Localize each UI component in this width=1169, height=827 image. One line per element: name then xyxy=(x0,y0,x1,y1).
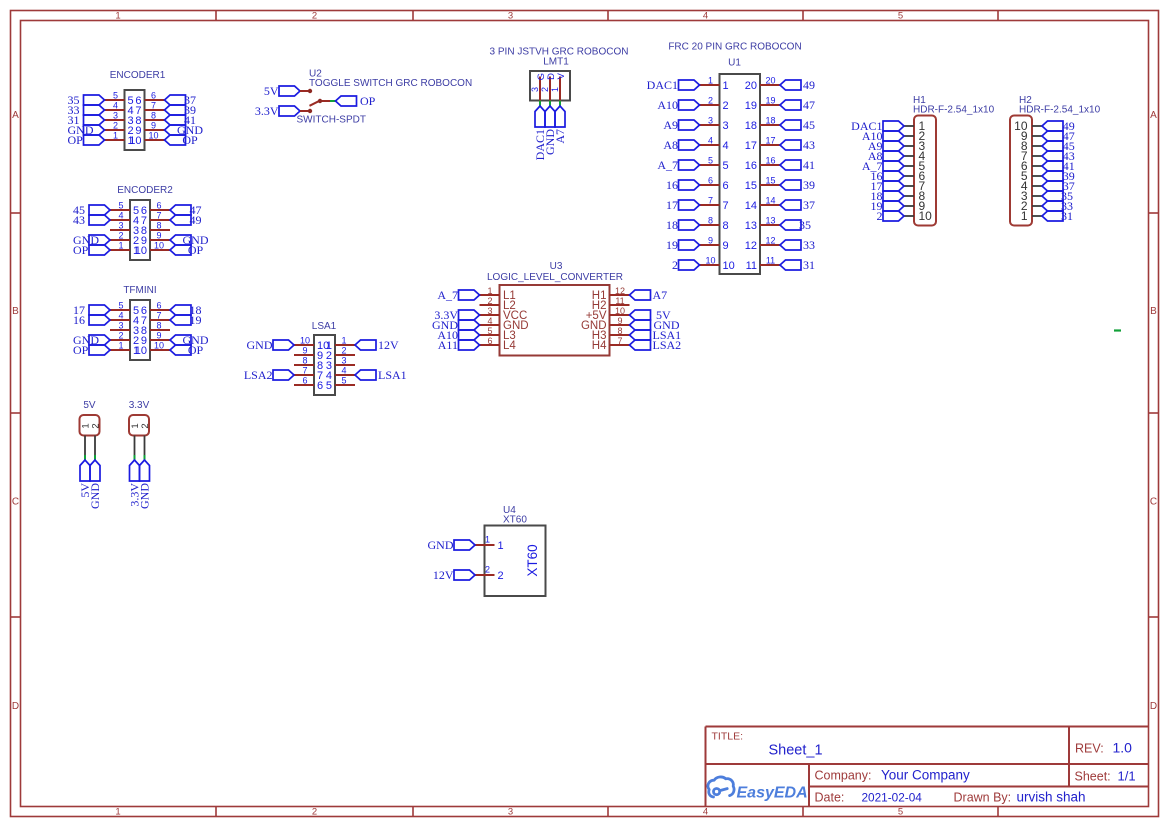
svg-text:LSA1: LSA1 xyxy=(378,368,407,382)
svg-text:10: 10 xyxy=(148,131,158,141)
svg-text:7: 7 xyxy=(723,200,729,212)
svg-text:Drawn By:: Drawn By: xyxy=(954,791,1012,805)
svg-text:U1: U1 xyxy=(728,57,741,68)
svg-text:Date:: Date: xyxy=(815,791,845,805)
svg-text:1: 1 xyxy=(118,241,123,251)
svg-text:11: 11 xyxy=(746,260,757,272)
svg-text:3: 3 xyxy=(530,87,540,92)
svg-text:3: 3 xyxy=(118,321,123,331)
svg-text:B: B xyxy=(12,306,19,317)
svg-text:2: 2 xyxy=(113,121,118,131)
svg-text:14: 14 xyxy=(745,200,757,212)
svg-text:18: 18 xyxy=(745,120,757,132)
svg-text:5: 5 xyxy=(708,156,713,166)
svg-text:LSA2: LSA2 xyxy=(244,368,273,382)
svg-text:3: 3 xyxy=(708,116,713,126)
svg-text:LMT1: LMT1 xyxy=(543,57,569,68)
svg-text:6: 6 xyxy=(487,336,492,346)
svg-text:1.0: 1.0 xyxy=(1113,740,1133,756)
svg-text:2: 2 xyxy=(118,231,123,241)
svg-text:16: 16 xyxy=(745,160,757,172)
svg-text:15: 15 xyxy=(745,180,757,192)
svg-text:OP: OP xyxy=(188,343,204,357)
svg-text:5: 5 xyxy=(487,326,492,336)
svg-text:A: A xyxy=(1150,110,1157,121)
svg-text:8: 8 xyxy=(156,321,161,331)
svg-text:C: C xyxy=(1150,497,1157,508)
svg-text:1: 1 xyxy=(708,76,713,86)
svg-text:GND: GND xyxy=(428,538,454,552)
svg-text:6: 6 xyxy=(708,176,713,186)
svg-text:4: 4 xyxy=(703,807,708,818)
svg-text:2021-02-04: 2021-02-04 xyxy=(862,791,923,805)
svg-text:5V: 5V xyxy=(83,400,96,411)
svg-text:17: 17 xyxy=(765,136,775,146)
svg-text:8: 8 xyxy=(302,356,307,366)
svg-text:10: 10 xyxy=(154,241,164,251)
svg-text:9: 9 xyxy=(156,331,161,341)
svg-text:12: 12 xyxy=(765,236,775,246)
svg-text:1: 1 xyxy=(485,535,490,545)
svg-text:2: 2 xyxy=(708,96,713,106)
svg-text:5: 5 xyxy=(326,380,332,392)
svg-text:37: 37 xyxy=(803,198,815,212)
svg-text:8: 8 xyxy=(151,111,156,121)
svg-text:urvish shah: urvish shah xyxy=(1017,790,1086,805)
svg-text:3: 3 xyxy=(487,306,492,316)
svg-text:3: 3 xyxy=(113,111,118,121)
svg-text:17: 17 xyxy=(745,140,757,152)
svg-text:10: 10 xyxy=(135,245,147,257)
svg-text:31: 31 xyxy=(803,258,815,272)
svg-text:2: 2 xyxy=(877,209,883,223)
svg-text:GND: GND xyxy=(247,338,273,352)
svg-text:6: 6 xyxy=(723,180,729,192)
svg-text:13: 13 xyxy=(765,216,775,226)
svg-text:12V: 12V xyxy=(378,338,399,352)
svg-text:8: 8 xyxy=(617,326,622,336)
svg-text:Sheet_1: Sheet_1 xyxy=(769,743,823,759)
svg-text:4: 4 xyxy=(723,140,729,152)
svg-text:45: 45 xyxy=(803,118,815,132)
svg-text:8: 8 xyxy=(708,216,713,226)
svg-text:7: 7 xyxy=(302,366,307,376)
svg-text:LSA1: LSA1 xyxy=(312,321,337,332)
svg-text:1: 1 xyxy=(550,87,560,92)
svg-text:6: 6 xyxy=(302,376,307,386)
svg-text:2: 2 xyxy=(140,423,151,428)
svg-text:12V: 12V xyxy=(433,568,454,582)
svg-text:7: 7 xyxy=(708,196,713,206)
svg-text:2: 2 xyxy=(312,11,317,22)
svg-text:Company:: Company: xyxy=(815,769,872,783)
svg-text:10: 10 xyxy=(300,336,310,346)
svg-text:10: 10 xyxy=(615,306,625,316)
svg-text:6: 6 xyxy=(151,91,156,101)
svg-text:OP: OP xyxy=(360,94,376,108)
svg-text:TFMINI: TFMINI xyxy=(123,285,156,296)
svg-text:HDR-F-2.54_1x10: HDR-F-2.54_1x10 xyxy=(913,104,995,115)
svg-text:2: 2 xyxy=(723,100,729,112)
svg-text:9: 9 xyxy=(708,236,713,246)
svg-text:3.3V: 3.3V xyxy=(129,400,150,411)
svg-text:5: 5 xyxy=(898,807,903,818)
svg-text:3: 3 xyxy=(341,356,346,366)
svg-text:6: 6 xyxy=(317,380,323,392)
svg-text:13: 13 xyxy=(745,220,757,232)
svg-text:9: 9 xyxy=(302,346,307,356)
svg-text:L4: L4 xyxy=(503,340,516,352)
svg-text:SWITCH-SPDT: SWITCH-SPDT xyxy=(297,115,366,126)
svg-text:B: B xyxy=(1150,306,1157,317)
svg-text:V: V xyxy=(556,72,567,79)
svg-text:1: 1 xyxy=(1021,209,1028,223)
svg-text:1: 1 xyxy=(115,807,120,818)
svg-text:TOGGLE SWITCH GRC ROBOCON: TOGGLE SWITCH GRC ROBOCON xyxy=(309,78,472,89)
svg-text:2: 2 xyxy=(498,570,504,582)
svg-text:2: 2 xyxy=(485,565,490,575)
svg-text:REV:: REV: xyxy=(1075,742,1104,756)
svg-text:OP: OP xyxy=(73,243,89,257)
svg-text:A_7: A_7 xyxy=(657,158,678,172)
svg-text:A7: A7 xyxy=(653,288,668,302)
svg-text:1: 1 xyxy=(118,341,123,351)
svg-text:14: 14 xyxy=(765,196,775,206)
svg-text:ENCODER2: ENCODER2 xyxy=(117,185,173,196)
svg-text:3: 3 xyxy=(118,221,123,231)
svg-text:16: 16 xyxy=(765,156,775,166)
svg-text:18: 18 xyxy=(666,218,678,232)
svg-text:8: 8 xyxy=(723,220,729,232)
svg-text:D: D xyxy=(12,701,19,712)
svg-text:9: 9 xyxy=(617,316,622,326)
svg-text:1: 1 xyxy=(723,80,729,92)
svg-text:3.3V: 3.3V xyxy=(255,104,279,118)
svg-text:3: 3 xyxy=(723,120,729,132)
svg-text:ENCODER1: ENCODER1 xyxy=(110,70,166,81)
svg-text:1: 1 xyxy=(498,540,504,552)
svg-text:2: 2 xyxy=(118,331,123,341)
svg-text:8: 8 xyxy=(156,221,161,231)
svg-text:9: 9 xyxy=(156,231,161,241)
svg-text:7: 7 xyxy=(151,101,156,111)
svg-text:19: 19 xyxy=(745,100,757,112)
svg-text:OP: OP xyxy=(68,133,84,147)
svg-text:16: 16 xyxy=(73,313,85,327)
svg-text:1: 1 xyxy=(341,336,346,346)
svg-text:A8: A8 xyxy=(663,138,678,152)
svg-text:Your Company: Your Company xyxy=(881,768,970,783)
svg-text:A10: A10 xyxy=(657,98,678,112)
svg-text:DAC1: DAC1 xyxy=(647,78,678,92)
svg-text:17: 17 xyxy=(666,198,678,212)
svg-text:15: 15 xyxy=(765,176,775,186)
svg-text:43: 43 xyxy=(73,213,85,227)
svg-text:6: 6 xyxy=(156,201,161,211)
svg-text:EasyEDA: EasyEDA xyxy=(737,785,808,802)
svg-text:OP: OP xyxy=(188,243,204,257)
svg-text:49: 49 xyxy=(803,78,815,92)
svg-text:12: 12 xyxy=(745,240,757,252)
svg-text:Sheet:: Sheet: xyxy=(1075,770,1111,784)
svg-text:16: 16 xyxy=(666,178,678,192)
svg-text:LSA2: LSA2 xyxy=(653,338,682,352)
svg-text:A9: A9 xyxy=(663,118,678,132)
svg-text:20: 20 xyxy=(765,76,775,86)
svg-text:A11: A11 xyxy=(438,338,458,352)
svg-text:FRC 20 PIN GRC ROBOCON: FRC 20 PIN GRC ROBOCON xyxy=(668,42,801,53)
svg-text:9: 9 xyxy=(151,121,156,131)
svg-text:3: 3 xyxy=(508,11,513,22)
svg-text:10: 10 xyxy=(129,135,141,147)
svg-text:5: 5 xyxy=(898,11,903,22)
svg-text:19: 19 xyxy=(190,313,202,327)
svg-text:39: 39 xyxy=(803,178,815,192)
svg-text:1/1: 1/1 xyxy=(1118,769,1136,784)
svg-text:11: 11 xyxy=(615,296,624,306)
svg-text:5: 5 xyxy=(118,301,123,311)
svg-text:12: 12 xyxy=(615,286,625,296)
svg-text:47: 47 xyxy=(803,98,815,112)
svg-text:D: D xyxy=(1150,701,1157,712)
svg-text:HDR-F-2.54_1x10: HDR-F-2.54_1x10 xyxy=(1019,104,1101,115)
svg-text:10: 10 xyxy=(154,341,164,351)
svg-text:19: 19 xyxy=(765,96,775,106)
svg-text:19: 19 xyxy=(666,238,678,252)
svg-text:2: 2 xyxy=(312,807,317,818)
svg-text:10: 10 xyxy=(919,209,933,223)
svg-text:OP: OP xyxy=(182,133,198,147)
svg-text:C: C xyxy=(12,497,19,508)
svg-text:11: 11 xyxy=(766,256,775,266)
svg-text:35: 35 xyxy=(799,218,811,232)
svg-text:OP: OP xyxy=(73,343,89,357)
svg-text:9: 9 xyxy=(723,240,729,252)
svg-text:2: 2 xyxy=(91,423,102,428)
svg-text:20: 20 xyxy=(745,80,757,92)
svg-text:41: 41 xyxy=(803,158,815,172)
svg-text:3: 3 xyxy=(508,807,513,818)
svg-text:7: 7 xyxy=(156,311,161,321)
svg-text:10: 10 xyxy=(723,260,735,272)
svg-text:4: 4 xyxy=(487,316,492,326)
svg-text:2: 2 xyxy=(540,87,550,92)
svg-text:18: 18 xyxy=(765,116,775,126)
svg-text:31: 31 xyxy=(1061,209,1073,223)
svg-text:A7: A7 xyxy=(553,129,567,144)
svg-text:LOGIC_LEVEL_CONVERTER: LOGIC_LEVEL_CONVERTER xyxy=(487,272,623,283)
svg-text:1: 1 xyxy=(487,286,492,296)
svg-text:TITLE:: TITLE: xyxy=(712,731,744,743)
svg-text:A_7: A_7 xyxy=(437,288,458,302)
svg-text:2: 2 xyxy=(487,296,492,306)
svg-text:7: 7 xyxy=(617,336,622,346)
svg-text:5: 5 xyxy=(113,91,118,101)
svg-text:GND: GND xyxy=(88,483,102,509)
svg-text:1: 1 xyxy=(115,11,120,22)
svg-text:6: 6 xyxy=(156,301,161,311)
svg-text:43: 43 xyxy=(803,138,815,152)
svg-text:XT60: XT60 xyxy=(525,544,540,576)
svg-text:XT60: XT60 xyxy=(503,515,527,526)
svg-text:10: 10 xyxy=(705,256,715,266)
svg-text:5: 5 xyxy=(341,376,346,386)
svg-text:A: A xyxy=(12,110,19,121)
svg-text:4: 4 xyxy=(341,366,346,376)
svg-text:5: 5 xyxy=(723,160,729,172)
svg-text:1: 1 xyxy=(113,131,118,141)
svg-text:7: 7 xyxy=(156,211,161,221)
svg-text:5: 5 xyxy=(118,201,123,211)
svg-text:10: 10 xyxy=(135,345,147,357)
svg-text:U3: U3 xyxy=(550,261,563,272)
svg-text:2: 2 xyxy=(672,258,678,272)
svg-text:49: 49 xyxy=(190,213,202,227)
svg-text:4: 4 xyxy=(118,311,123,321)
svg-text:4: 4 xyxy=(113,101,118,111)
svg-text:4: 4 xyxy=(703,11,708,22)
svg-text:5V: 5V xyxy=(264,84,279,98)
svg-text:H4: H4 xyxy=(592,340,607,352)
svg-text:4: 4 xyxy=(118,211,123,221)
svg-text:4: 4 xyxy=(708,136,713,146)
svg-text:2: 2 xyxy=(341,346,346,356)
svg-text:33: 33 xyxy=(803,238,815,252)
svg-text:GND: GND xyxy=(137,483,151,509)
